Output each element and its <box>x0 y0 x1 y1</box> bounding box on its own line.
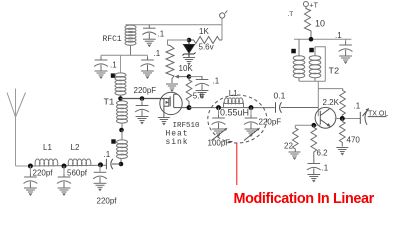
inductor L1 <box>35 159 58 165</box>
terminal post circle <box>220 13 225 18</box>
svg-text:Modification In Linear: Modification In Linear <box>234 191 375 207</box>
zener D1 5.6v <box>183 40 196 57</box>
potentiometer 10K <box>166 45 174 83</box>
resistor 2.2K <box>340 89 346 119</box>
ground (10K) <box>166 84 178 91</box>
node LPF out <box>98 162 103 167</box>
wire: T2 secondary top bracket <box>315 47 325 82</box>
svg-text:T2: T2 <box>329 67 340 77</box>
wire: mid rail <box>101 54 148 56</box>
wire: base lead <box>295 124 320 126</box>
variable capacitor 220pF <box>244 115 258 137</box>
node drain <box>187 105 192 110</box>
svg-text:6.2: 6.2 <box>317 149 329 158</box>
node bias B <box>187 74 192 79</box>
node L1/L2 <box>62 164 67 169</box>
svg-text:.1: .1 <box>110 61 117 70</box>
capacitor 560pf <box>57 174 71 196</box>
trimmer arrow 220pF <box>244 129 259 141</box>
capacitor 220pF <box>135 102 149 124</box>
svg-text:L2: L2 <box>71 143 80 152</box>
svg-text:RFC1: RFC1 <box>103 35 122 44</box>
node T1 bottom <box>119 162 124 167</box>
phasing dot T2 right <box>309 48 314 53</box>
wire: LPF bus <box>30 164 106 167</box>
ground (zener) <box>183 58 195 65</box>
wire: rail to 1K corner <box>221 25 223 40</box>
svg-text:220pF: 220pF <box>134 86 157 95</box>
svg-text:1K: 1K <box>199 27 209 36</box>
transformer T1 secondary upper <box>117 99 128 131</box>
svg-text:560pf: 560pf <box>67 169 88 178</box>
svg-text:.1: .1 <box>154 49 161 58</box>
trimmer arrow 100pF <box>212 129 227 141</box>
node L1 left <box>216 105 221 110</box>
svg-text:L1: L1 <box>229 89 238 98</box>
wire: node B to bypass cap <box>189 76 202 78</box>
capacitor C .1 (left of mid rail) <box>94 57 108 79</box>
wire: T1 primary feed <box>120 55 122 72</box>
svg-text:5.6v: 5.6v <box>199 43 214 52</box>
svg-text:10K: 10K <box>179 64 194 73</box>
resistor 1K <box>189 37 222 44</box>
svg-text:0.55uH: 0.55uH <box>220 108 249 118</box>
capacitor 0.1 <box>276 102 282 113</box>
node emitter <box>340 116 345 121</box>
ground (source) <box>158 118 170 125</box>
transformer T2 secondary <box>309 47 321 82</box>
node ant <box>28 164 33 169</box>
ground (470) <box>336 148 348 155</box>
node L1 right <box>249 105 254 110</box>
svg-text:+T: +T <box>310 3 319 10</box>
resistor 5.6 <box>186 77 192 106</box>
wire: T2 supply rail <box>294 38 351 40</box>
transformer T1 primary <box>115 73 126 99</box>
svg-text:10: 10 <box>315 19 325 29</box>
resistor 470 <box>340 119 346 147</box>
resistor 22 <box>293 128 299 152</box>
wire: drain line across <box>189 107 275 109</box>
capacitor .1 output <box>360 111 367 125</box>
phasing dot T1 top <box>111 73 115 77</box>
capacitor C .1 (right of mid rail) <box>141 57 155 79</box>
svg-text:0.1: 0.1 <box>274 91 286 101</box>
wire: emitter out <box>335 118 361 120</box>
node supply <box>309 37 314 42</box>
transformer T1 secondary lower <box>117 130 128 164</box>
svg-text:.1: .1 <box>104 150 111 159</box>
red callout line <box>236 143 238 185</box>
capacitor 220pf (1) <box>24 174 38 196</box>
svg-text:.1: .1 <box>354 102 361 111</box>
phasing dot T2 left <box>291 49 296 54</box>
ground (22) <box>289 152 301 159</box>
node base <box>312 123 317 128</box>
wiper arrow <box>178 76 190 78</box>
svg-text:2.2K: 2.2K <box>323 98 340 107</box>
wire: base bias corner <box>294 125 296 128</box>
wire: T2 bottom bus <box>299 80 325 82</box>
wire: collector drop <box>317 81 319 116</box>
variable capacitor 100pF <box>212 115 226 137</box>
svg-text:.1: .1 <box>213 77 220 86</box>
svg-text:T1: T1 <box>104 97 115 107</box>
svg-text:.1: .1 <box>322 164 329 173</box>
wire: drain out <box>174 107 189 109</box>
capacitor .1 (6.2 bypass) <box>307 160 321 182</box>
svg-text:5.6: 5.6 <box>193 92 205 101</box>
svg-text:220pF: 220pF <box>259 117 282 126</box>
inductor L1 0.55uH <box>224 98 244 108</box>
mosfet Q1 internals <box>164 94 178 117</box>
antenna <box>7 89 30 167</box>
svg-text:.1: .1 <box>335 31 342 40</box>
svg-text:22: 22 <box>284 142 293 151</box>
transistor Q2 <box>315 107 336 128</box>
wire: cap to Q2 node <box>281 107 318 109</box>
transformer T2 primary <box>293 39 305 81</box>
arrow TX OL <box>363 109 369 116</box>
node T1 link <box>119 128 124 133</box>
wire stubs to caps <box>30 39 345 174</box>
inductor L2 <box>68 159 91 165</box>
capacitor 220pf (2) <box>93 169 107 191</box>
svg-text:sink: sink <box>166 138 189 147</box>
capacitor .1 (series to T1) <box>106 159 121 169</box>
resistor 6.2 <box>311 125 317 160</box>
terminal +T <box>303 2 308 7</box>
capacitor C .1 (supply bypass) <box>339 42 353 64</box>
wire: to 2.2K <box>318 88 342 90</box>
node bias A <box>187 38 192 43</box>
node 220pF <box>140 96 145 101</box>
svg-text:470: 470 <box>347 136 361 145</box>
wire: rail to terminal <box>221 18 223 25</box>
capacitor C .1 (gate bypass) <box>195 76 209 98</box>
capacitor C .1 (next to RFC1) <box>142 25 156 47</box>
svg-text:220pf: 220pf <box>33 169 54 178</box>
wire: node A to 10K top <box>168 40 190 45</box>
svg-text:L1: L1 <box>43 143 52 152</box>
dashed highlight circle <box>208 95 267 143</box>
inductor RFC1 <box>125 25 136 55</box>
svg-text:.1: .1 <box>158 30 165 39</box>
svg-text:.T: .T <box>288 11 294 18</box>
phasing dot T1 bottom <box>111 139 115 143</box>
svg-text:220pf: 220pf <box>97 197 118 206</box>
node T1/gate <box>118 96 123 101</box>
op circle Q1 <box>160 92 182 114</box>
wire: T1 to gate <box>121 98 171 100</box>
svg-text:100pF: 100pF <box>208 138 231 147</box>
wire: top rail <box>126 24 223 26</box>
resistor 10 <box>305 7 312 40</box>
